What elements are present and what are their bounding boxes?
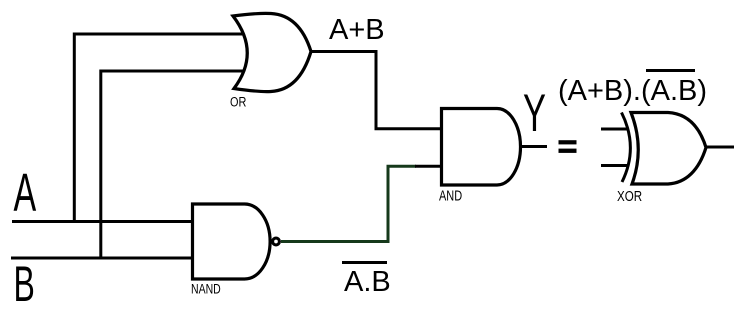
wire NAND output to AND bottom input (green) — [281, 166, 416, 241]
XOR back arc — [622, 113, 631, 183]
wire green-to-black segment into AND — [415, 165, 442, 168]
wire input A horizontal — [12, 220, 194, 223]
AND gate — [442, 109, 521, 186]
NAND gate — [193, 204, 271, 279]
XOR input stub top — [601, 128, 627, 131]
svg-text:A.B: A.B — [344, 266, 391, 298]
wire B branch to OR bottom input — [101, 71, 248, 258]
svg-text:A: A — [14, 162, 37, 223]
overline over A.B — [342, 261, 387, 264]
svg-text:OR: OR — [230, 94, 246, 110]
wire input B horizontal — [11, 257, 194, 260]
equals sign — [559, 140, 577, 153]
XOR gate body — [631, 113, 706, 185]
overline over (A.B — [646, 69, 695, 72]
svg-text:NAND: NAND — [191, 281, 221, 297]
wire XOR output — [706, 146, 734, 149]
svg-text:B: B — [14, 256, 35, 312]
wire AND output — [521, 145, 548, 148]
NAND output bubble — [273, 238, 280, 245]
svg-text:A+B: A+B — [329, 14, 385, 46]
XOR input stub bottom — [601, 164, 627, 167]
svg-text:Y: Y — [523, 85, 546, 143]
svg-text:(A+B).(A.B): (A+B).(A.B) — [558, 75, 707, 107]
wire A branch to OR top input — [74, 34, 248, 222]
OR gate — [233, 13, 311, 91]
wire OR output to AND top input — [311, 52, 442, 129]
svg-text:AND: AND — [439, 187, 462, 204]
svg-text:XOR: XOR — [617, 188, 642, 205]
